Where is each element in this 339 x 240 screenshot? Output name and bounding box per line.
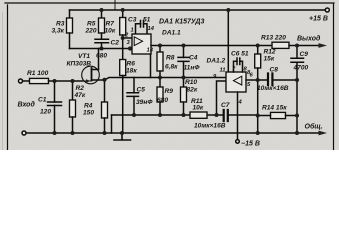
wire R5 top lead	[101, 10, 103, 18]
junction rail-R7	[121, 8, 125, 12]
junction gate-R2	[71, 79, 75, 83]
wire C3 leads to pins 1 and 14	[136, 24, 148, 34]
junction rail-DA1.2 supply	[226, 8, 230, 12]
junction bus-ground	[120, 131, 124, 135]
junction net115-R9	[158, 113, 162, 117]
wire R3 top lead	[69, 10, 71, 18]
resistor R11	[190, 112, 207, 118]
junction net115-R14	[256, 114, 260, 118]
wire VT1 source / node A	[92, 78, 227, 81]
svg-text:220: 220	[85, 28, 97, 35]
svg-text:10к: 10к	[105, 28, 116, 35]
wire net-115 left riser	[111, 115, 113, 133]
+15V terminal	[325, 8, 329, 12]
vertical scan mark	[114, 0, 116, 10]
wire R9 top lead	[159, 78, 161, 88]
op-amp DA1.1	[132, 34, 151, 54]
svg-text:C6 51: C6 51	[231, 51, 249, 58]
svg-text:39нФ: 39нФ	[136, 99, 153, 106]
wire R8 bottom lead	[159, 71, 161, 78]
wire DA1.2 output	[246, 79, 297, 81]
wire R4 bottom lead	[104, 118, 106, 133]
+15V rail wire	[70, 9, 326, 11]
svg-text:11нФ: 11нФ	[184, 65, 201, 72]
resistor R4	[102, 102, 108, 118]
wire node-3 horizontal	[70, 48, 133, 50]
svg-text:R9: R9	[165, 88, 174, 95]
wire R2 bottom lead	[72, 117, 74, 133]
svg-text:VT1: VT1	[78, 53, 90, 60]
svg-text:680: 680	[157, 97, 168, 104]
junction source-R4	[103, 78, 107, 82]
svg-text:Выход: Выход	[297, 35, 321, 43]
wire C2 bottom lead	[101, 43, 103, 49]
wire R5 to C2	[101, 33, 103, 39]
svg-text:Вход: Вход	[18, 101, 36, 109]
resistor R6	[120, 60, 126, 76]
capacitor C6	[237, 58, 240, 65]
wire R13 to output arrow	[289, 45, 320, 47]
junction bus-feedback	[256, 131, 260, 135]
svg-text:КП303В: КП303В	[67, 61, 92, 68]
wire C9 column	[296, 46, 298, 134]
ground bus wire	[26, 132, 320, 134]
svg-text:DA1 К157УД3: DA1 К157УД3	[159, 19, 204, 26]
svg-text:10мк×16В: 10мк×16В	[194, 123, 226, 130]
svg-text:C7: C7	[221, 102, 230, 109]
junction drain-C2	[100, 47, 104, 51]
capacitor C8	[268, 74, 272, 86]
wire C4 bottom lead	[183, 61, 185, 77]
wire R7 top lead	[122, 10, 124, 18]
wire VT1 drain riser	[98, 49, 100, 70]
wire R9 bottom lead	[159, 102, 161, 115]
resistor R8	[157, 52, 163, 71]
junction gate-C1	[53, 79, 57, 83]
input terminal	[19, 79, 23, 83]
junction out2-C9 column	[295, 78, 299, 82]
svg-text:C2: C2	[111, 40, 120, 47]
wire R10 top lead	[183, 78, 185, 88]
svg-text:DA1.1: DA1.1	[162, 30, 181, 37]
wire R12 bottom and feedback drop	[257, 68, 259, 133]
svg-text:R7: R7	[106, 21, 115, 28]
junction R14-C9 column	[295, 114, 299, 118]
resistor R3	[67, 18, 73, 33]
wire C1 top lead	[54, 81, 56, 102]
svg-text:C3: C3	[128, 17, 137, 24]
svg-text:47к: 47к	[74, 92, 86, 99]
wire pin9	[217, 81, 227, 115]
wire C5 bottom lead	[133, 96, 135, 115]
wire input to R1	[23, 80, 30, 82]
svg-text:14: 14	[148, 26, 155, 32]
resistor R12	[255, 54, 261, 68]
svg-text:120: 120	[40, 109, 51, 116]
resistor R9	[157, 87, 163, 102]
wire R12 top lead	[257, 46, 259, 55]
wire C5 top lead	[133, 78, 135, 93]
ground symbol	[114, 133, 131, 140]
-15V terminal	[236, 140, 240, 144]
wire gate	[49, 80, 83, 82]
capacitor C9	[291, 58, 304, 62]
svg-text:R1 100: R1 100	[27, 70, 49, 77]
capacitor C7	[224, 110, 228, 121]
svg-text:R4: R4	[84, 103, 93, 110]
svg-text:R5: R5	[87, 21, 96, 28]
junction pin2-R7	[121, 36, 125, 40]
junction out1-R8	[158, 44, 162, 48]
wire R7 to R6 column	[122, 35, 124, 60]
svg-text:18к: 18к	[126, 68, 137, 75]
wire C1 bottom lead	[54, 106, 56, 134]
svg-text:6,8к: 6,8к	[165, 64, 178, 71]
junction nodeA-C4-R10	[182, 76, 186, 80]
svg-text:10к: 10к	[193, 105, 204, 112]
svg-text:R6: R6	[127, 61, 136, 68]
op-amp DA1.2	[226, 72, 246, 92]
resistor R13	[272, 42, 289, 48]
capacitor C2	[95, 39, 109, 43]
wire R6 bottom to ground bus	[122, 76, 124, 134]
border frame	[5, 3, 334, 150]
output arrow	[319, 43, 328, 48]
svg-text:1: 1	[131, 28, 134, 34]
svg-text:11: 11	[220, 68, 226, 74]
svg-text:51: 51	[143, 17, 151, 24]
junction bus-R2	[71, 131, 75, 135]
wire node-A riser from DA1.1	[150, 54, 152, 78]
capacitor C1	[48, 102, 62, 106]
wire C4 top lead	[183, 46, 185, 58]
svg-text:10мк×16В: 10мк×16В	[257, 85, 289, 92]
svg-text:−15 В: −15 В	[241, 141, 260, 148]
junction nodeA-R8-R9	[158, 76, 162, 80]
resistor R7	[120, 18, 126, 36]
wire C6 leads to pins 7 and 8	[234, 61, 243, 72]
junction net115-pin9	[215, 113, 219, 117]
wire R2 top lead	[72, 81, 74, 100]
wire R8 top lead	[159, 46, 161, 53]
svg-text:+15 В: +15 В	[309, 16, 328, 23]
capacitor C3	[141, 21, 144, 28]
svg-text:R12: R12	[264, 49, 276, 56]
svg-text:13: 13	[147, 48, 154, 54]
svg-text:R10: R10	[185, 79, 197, 86]
svg-text:150: 150	[83, 110, 94, 117]
junction rail-R5	[100, 8, 104, 12]
junction out1-R12	[256, 44, 260, 48]
capacitor C4	[178, 57, 189, 61]
svg-text:R8: R8	[166, 55, 175, 62]
wire DA1.2 supply riser	[227, 10, 229, 72]
resistor R10	[181, 87, 187, 102]
junction out2-R12	[256, 78, 260, 82]
wire R3 bottom to node bus	[69, 33, 71, 49]
svg-text:Общ.: Общ.	[305, 123, 323, 131]
wire R10 bottom lead	[183, 102, 185, 115]
svg-text:C8: C8	[270, 67, 279, 74]
wire output pin 13	[151, 45, 272, 47]
wire pin 4 to -15V	[237, 92, 239, 140]
wire pin2	[123, 37, 132, 39]
junction net115-R10	[182, 113, 186, 117]
capacitor C5	[127, 93, 139, 97]
svg-text:C4: C4	[189, 55, 198, 62]
svg-text:DA1.2: DA1.2	[207, 58, 226, 65]
junction pin3 node	[128, 46, 132, 50]
junction bus-C1	[53, 131, 57, 135]
ground bus arrow	[319, 131, 328, 136]
resistor R5	[99, 18, 105, 33]
junction bus-R4	[103, 131, 107, 135]
resistor R14	[271, 112, 286, 118]
svg-text:82к: 82к	[187, 87, 198, 94]
junction out1-C4	[182, 44, 186, 48]
svg-text:15к: 15к	[264, 56, 275, 63]
svg-text:4700: 4700	[293, 65, 309, 72]
junction Vyhod-C9	[295, 44, 299, 48]
svg-text:C5: C5	[137, 87, 146, 94]
svg-text:R3: R3	[56, 21, 65, 28]
svg-text:680: 680	[96, 53, 107, 60]
svg-text:R2: R2	[76, 85, 85, 92]
wire net-115 horizontal	[112, 114, 258, 116]
svg-text:R13 220: R13 220	[261, 35, 286, 42]
junction net115-C5	[132, 113, 136, 117]
wire R4 top lead	[104, 80, 106, 102]
wire R14 leads	[258, 115, 297, 117]
common terminal	[22, 131, 26, 135]
svg-text:R14 15к: R14 15к	[262, 105, 287, 112]
svg-text:3,3к: 3,3к	[52, 28, 65, 35]
resistor R2	[70, 100, 76, 117]
svg-text:C1: C1	[38, 97, 47, 104]
junction bus-C9 column	[295, 131, 299, 135]
svg-text:C9: C9	[300, 51, 309, 58]
resistor R1	[30, 78, 49, 83]
transistor VT1	[82, 66, 100, 84]
